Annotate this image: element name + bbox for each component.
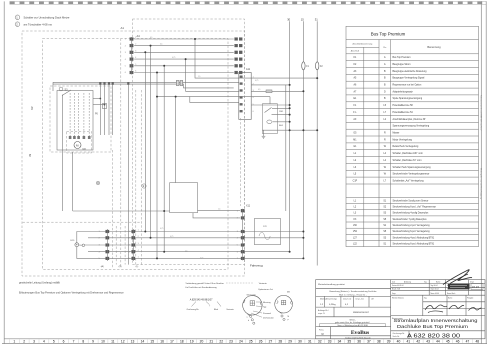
svg-text:A 629 540 49 88/1/07: A 629 540 49 88/1/07 bbox=[190, 298, 213, 301]
svg-text:4: 4 bbox=[43, 340, 45, 344]
unit pin row bbox=[69, 136, 91, 139]
svg-text:EvoBus GmbH D-89231 Neu-Ulm: EvoBus GmbH D-89231 Neu-Ulm bbox=[345, 337, 371, 339]
svg-text:3: 3 bbox=[253, 90, 254, 92]
wire relay top bbox=[269, 97, 271, 104]
junction dots bbox=[144, 38, 318, 259]
svg-text:0,75: 0,75 bbox=[200, 257, 203, 259]
svg-text:Schalter „Dachluke AUF“ vorn: Schalter „Dachluke AUF“ vorn bbox=[393, 152, 424, 155]
svg-text:Schalter zur Umschaltung Dach: Schalter zur Umschaltung Dach Metze bbox=[24, 15, 70, 19]
svg-text:Tag 04.04: Tag 04.04 bbox=[431, 285, 438, 287]
stub wires rows 2 4 bbox=[88, 237, 106, 239]
svg-text:Baugruppe elektrische Dosierun: Baugruppe elektrische Dosierung bbox=[393, 70, 428, 73]
svg-text:41: 41 bbox=[406, 340, 410, 344]
svg-text:13: 13 bbox=[131, 340, 135, 344]
bus 31 bbox=[316, 21, 318, 265]
wire drop to junction box bbox=[175, 97, 177, 183]
note 2 callout bbox=[15, 22, 20, 27]
wire relay bottom row bbox=[262, 130, 263, 133]
svg-text:Schalter Heck Spannungsversorg: Schalter Heck Spannungsversorgung bbox=[393, 166, 432, 169]
svg-text:1,5: 1,5 bbox=[218, 209, 220, 211]
callout 2 on harness bbox=[142, 184, 146, 188]
svg-text:(L): (L) bbox=[136, 266, 139, 268]
svg-text:30: 30 bbox=[298, 340, 302, 344]
svg-text:2: 2 bbox=[99, 238, 100, 240]
svg-text:42: 42 bbox=[416, 340, 420, 344]
svg-text:12V: 12V bbox=[263, 226, 267, 228]
bottom rows to buses bbox=[135, 232, 303, 259]
svg-text:39: 39 bbox=[387, 340, 391, 344]
wire branch drop row5 bbox=[163, 66, 165, 252]
svg-text:1: 1 bbox=[13, 340, 15, 344]
svg-text:Verw. u. Mitteilung ohne AG 92: Verw. u. Mitteilung ohne AG 92 BGB bbox=[337, 324, 368, 327]
svg-text:5: 5 bbox=[135, 64, 136, 66]
svg-text:24: 24 bbox=[239, 340, 243, 344]
svg-text:Relais Heck Verriegelung: Relais Heck Verriegelung bbox=[393, 145, 420, 148]
svg-text:Weitergabe nur mit Genehmigung: Weitergabe nur mit Genehmigung bbox=[479, 168, 482, 200]
note 1 callout bbox=[15, 15, 20, 20]
svg-text:(X): (X) bbox=[119, 266, 122, 268]
svg-text:Bus Top Premium: Bus Top Premium bbox=[371, 32, 406, 37]
svg-text:0,5: 0,5 bbox=[160, 43, 162, 45]
wire row 78 to bus31 bbox=[251, 84, 289, 86]
svg-text:7: 7 bbox=[73, 340, 75, 344]
svg-text:Gepr 04.04: Gepr 04.04 bbox=[431, 289, 439, 291]
svg-text:32: 32 bbox=[318, 340, 322, 344]
svg-text:Pin: Pin bbox=[383, 47, 386, 49]
svg-text:7: 7 bbox=[237, 258, 238, 260]
wire branch drop row2 bbox=[150, 46, 152, 238]
svg-text:Steckverbindung 6-pol. „Auf“ R: Steckverbindung 6-pol. „Auf“ Regensensor bbox=[393, 206, 437, 209]
svg-text:Name Beck: Name Beck bbox=[447, 293, 455, 295]
svg-text:21: 21 bbox=[209, 340, 213, 344]
svg-text:gestrichelte Leitung (Umfang): gestrichelte Leitung (Umfang) entfällt bbox=[19, 281, 60, 284]
wire branch drop row4 to strip bbox=[186, 59, 239, 91]
svg-text:47: 47 bbox=[466, 340, 470, 344]
svg-text:2: 2 bbox=[138, 236, 139, 238]
svg-text:Steckverbindung 2-pol. Verrieg: Steckverbindung 2-pol. Verriegelung bbox=[393, 224, 431, 227]
svg-text:Urspr: Urspr bbox=[470, 281, 474, 283]
svg-text:Bemerkung (Batterie) + Sondera: Bemerkung (Batterie) + Sonderausstattung… bbox=[330, 290, 378, 293]
svg-text:Drehstecker: Drehstecker bbox=[263, 316, 274, 319]
enclosure motor dashed box bbox=[67, 132, 92, 154]
svg-text:26: 26 bbox=[259, 340, 263, 344]
svg-text:36: 36 bbox=[357, 340, 361, 344]
svg-text:Anschlußbezeichnung: Anschlußbezeichnung bbox=[353, 43, 373, 46]
svg-text:Gepr.: Gepr. bbox=[392, 293, 396, 295]
svg-text:Tag: Tag bbox=[424, 281, 427, 283]
enclosure outer dashed box bbox=[22, 31, 245, 276]
switch S1 contact bbox=[62, 90, 71, 96]
svg-text:4: 4 bbox=[135, 57, 136, 59]
svg-text:0,5: 0,5 bbox=[150, 37, 152, 39]
bus 30 bbox=[289, 21, 291, 252]
svg-text:40: 40 bbox=[397, 340, 401, 344]
svg-text:16: 16 bbox=[160, 340, 164, 344]
svg-text:Regensensor nur bei Option: Regensensor nur bei Option bbox=[393, 84, 422, 87]
svg-text:31: 31 bbox=[308, 340, 312, 344]
svg-text:Zeichnungs-Nr.: Zeichnungs-Nr. bbox=[393, 333, 406, 335]
svg-text:Gewicht (kg): Gewicht (kg) bbox=[327, 298, 337, 301]
relay contact bbox=[265, 108, 272, 113]
svg-text:4: 4 bbox=[237, 238, 238, 240]
svg-text:18: 18 bbox=[180, 340, 184, 344]
wire unit left drop bbox=[62, 95, 64, 212]
svg-text:Verbindung gemäß Unterl. Bus-S: Verbindung gemäß Unterl. Bus-Struktur bbox=[186, 282, 225, 285]
svg-text:0,75: 0,75 bbox=[170, 236, 173, 238]
svg-text:Blatt: Blatt bbox=[214, 308, 218, 311]
svg-text:35: 35 bbox=[347, 340, 351, 344]
wire branch drop row3 bbox=[144, 52, 146, 231]
connector X1 pins bbox=[106, 230, 135, 260]
svg-text:1: 1 bbox=[253, 76, 254, 78]
wire A4 row4 bbox=[134, 58, 234, 60]
svg-text:urspr. N: urspr. N bbox=[318, 312, 325, 315]
bus 15 bbox=[302, 21, 304, 258]
pin pair on feed wires bbox=[176, 81, 179, 86]
svg-text:Tag: Tag bbox=[424, 298, 427, 300]
svg-text:5: 5 bbox=[129, 258, 130, 260]
svg-text:am Türschalter 4-08 ms: am Türschalter 4-08 ms bbox=[24, 22, 53, 26]
svg-text:Baugruppe Strom: Baugruppe Strom bbox=[393, 63, 411, 66]
svg-text:1,5: 1,5 bbox=[198, 76, 200, 78]
svg-text:29: 29 bbox=[288, 340, 292, 344]
svg-text:Adapterleitungssatz: Adapterleitungssatz bbox=[393, 90, 414, 93]
svg-text:6: 6 bbox=[125, 72, 126, 74]
svg-text:15: 15 bbox=[301, 17, 304, 21]
svg-text:X11: X11 bbox=[246, 205, 251, 208]
relay coil bbox=[267, 120, 272, 124]
svg-text:3: 3 bbox=[125, 52, 126, 54]
svg-text:Steckverbinder Verriegelungsse: Steckverbinder Verriegelungssensor bbox=[393, 173, 430, 176]
svg-text:Urspr.-mst: Urspr.-mst bbox=[356, 298, 365, 301]
svg-text:Messing: Messing bbox=[263, 302, 270, 304]
lamp E15 bbox=[75, 243, 79, 247]
svg-text:1: 1 bbox=[237, 210, 238, 212]
unit aux drops bbox=[100, 84, 112, 135]
svg-text:31: 31 bbox=[315, 17, 318, 21]
svg-text:3: 3 bbox=[237, 231, 238, 233]
wire A4 row6 bbox=[134, 72, 234, 74]
svg-text:Steckverbindung 4-pol. Abdecku: Steckverbindung 4-pol. Abdeckung BT81 bbox=[393, 236, 435, 239]
svg-text:30: 30 bbox=[287, 17, 290, 21]
svg-text:Zeichnung-Nr: Zeichnung-Nr bbox=[187, 309, 199, 311]
svg-text:für Dachluke mit Fernbedienung: für Dachluke mit Fernbedienung bbox=[186, 286, 218, 289]
wire sensor leads bbox=[79, 244, 82, 246]
svg-text:Anschlußdauerplus „Klemme 30“: Anschlußdauerplus „Klemme 30“ bbox=[393, 118, 427, 121]
control unit S1 box bbox=[57, 91, 93, 151]
svg-text:5: 5 bbox=[237, 245, 238, 247]
motor M3 bbox=[74, 142, 81, 149]
svg-text:Dachluke Bus Top Premium: Dachluke Bus Top Premium bbox=[397, 324, 468, 329]
fuse F1 bbox=[302, 62, 305, 70]
svg-text:2: 2 bbox=[135, 44, 136, 46]
svg-text:4: 4 bbox=[138, 250, 139, 252]
svg-text:Datum näl: Datum näl bbox=[343, 298, 352, 301]
svg-text:Variante: Variante bbox=[259, 282, 268, 285]
svg-text:6: 6 bbox=[135, 71, 136, 73]
wire A4 row2 bbox=[134, 45, 234, 47]
svg-text:A4: A4 bbox=[137, 34, 141, 38]
enclosure control unit dashed box bbox=[50, 86, 111, 152]
svg-text:EvoBus: EvoBus bbox=[351, 330, 370, 336]
svg-text:Norm 04.04: Norm 04.04 bbox=[431, 293, 439, 295]
svg-text:0,75: 0,75 bbox=[255, 80, 258, 82]
svg-text:4: 4 bbox=[125, 59, 126, 61]
wire size labels bbox=[150, 37, 260, 259]
svg-text:Potentialklemme 58: Potentialklemme 58 bbox=[393, 104, 414, 107]
svg-text:Bearb. Goll: Bearb. Goll bbox=[392, 289, 401, 291]
wire branch drop row6 bbox=[156, 73, 158, 259]
wire box to X11 row1 bbox=[198, 210, 241, 212]
svg-text:22: 22 bbox=[219, 340, 223, 344]
pin numbers X11 bbox=[237, 210, 238, 260]
enclosure middle dashed box bbox=[43, 39, 229, 270]
terminal symbol near trunk bbox=[96, 181, 99, 184]
sensor B bbox=[82, 244, 85, 247]
svg-text:Anschluß: Anschluß bbox=[351, 50, 360, 53]
svg-text:Motor Verriegelung: Motor Verriegelung bbox=[393, 138, 413, 141]
svg-text:37: 37 bbox=[367, 340, 371, 344]
svg-text:Bus Top Premium: Bus Top Premium bbox=[393, 56, 411, 59]
wire branch drop row1 bbox=[195, 39, 317, 78]
svg-text:Benennung: Benennung bbox=[427, 45, 441, 49]
svg-text:25: 25 bbox=[249, 340, 253, 344]
svg-text:Schalter „Dachluke ZU“ vorn: Schalter „Dachluke ZU“ vorn bbox=[393, 159, 423, 162]
svg-text:C1P: C1P bbox=[353, 181, 358, 183]
svg-text:48: 48 bbox=[475, 340, 479, 344]
wire feed pair extensions bbox=[186, 81, 239, 83]
svg-text:23: 23 bbox=[229, 340, 233, 344]
svg-text:Weiter-: Weiter- bbox=[349, 318, 355, 321]
svg-text:Spannungsversorgung Verriegelu: Spannungsversorgung Verriegelung bbox=[393, 125, 430, 128]
svg-text:Passend: Passend bbox=[263, 313, 271, 315]
svg-text:A1: A1 bbox=[121, 26, 125, 30]
svg-text:6: 6 bbox=[63, 340, 65, 344]
wire unit stub rows bbox=[93, 98, 100, 100]
enclosure A1 dashed box bbox=[133, 19, 245, 265]
svg-text:15: 15 bbox=[150, 340, 154, 344]
svg-text:19: 19 bbox=[190, 340, 194, 344]
svg-text:1: 1 bbox=[138, 230, 139, 232]
svg-text:Fahrzeug: Fahrzeug bbox=[250, 264, 263, 268]
pin numbers X1/X2 bbox=[99, 230, 139, 261]
wire box to X11 row2 bbox=[193, 213, 240, 218]
svg-text:5: 5 bbox=[253, 104, 254, 106]
svg-text:V52: V52 bbox=[353, 231, 358, 233]
svg-text:1: 1 bbox=[138, 257, 139, 259]
svg-text:1M: 1M bbox=[30, 154, 32, 157]
svg-text:Erläuterungen Bus Top Premium: Erläuterungen Bus Top Premium und Option… bbox=[19, 291, 124, 294]
svg-text:4: 4 bbox=[253, 97, 254, 99]
svg-text:1: 1 bbox=[129, 231, 130, 233]
wire relay 114 bbox=[272, 114, 290, 116]
svg-text:3: 3 bbox=[99, 245, 100, 247]
svg-text:11: 11 bbox=[111, 340, 115, 344]
buzzer box P5 bbox=[254, 219, 280, 245]
pin numbers A4 bbox=[125, 37, 136, 74]
svg-text:1: 1 bbox=[135, 37, 136, 39]
svg-text:(A): (A) bbox=[101, 265, 104, 268]
callout 1 on unit bbox=[59, 87, 63, 91]
svg-text:Schutzvermerk nach DIN 34 beac: Schutzvermerk nach DIN 34 beachten! bbox=[479, 95, 482, 131]
svg-text:14: 14 bbox=[141, 340, 145, 344]
svg-text:9: 9 bbox=[92, 340, 94, 344]
svg-text:3: 3 bbox=[138, 243, 139, 245]
svg-text:43: 43 bbox=[426, 340, 430, 344]
wire lamp loop top bbox=[77, 232, 106, 243]
svg-text:Steckverbindung 4-polig Dauerp: Steckverbindung 4-polig Dauerplus bbox=[393, 212, 430, 215]
wire relay 108 bbox=[272, 107, 290, 109]
svg-text:Stromlaufplan Innenverschaltun: Stromlaufplan Innenverschaltung bbox=[394, 318, 479, 323]
terminal strip A11 bbox=[239, 73, 251, 120]
svg-text:Variante: Variante bbox=[226, 308, 234, 311]
svg-text:Spule Spannungsversorgung: Spule Spannungsversorgung bbox=[393, 97, 423, 100]
svg-text:0,25kg: 0,25kg bbox=[329, 304, 336, 306]
wire relay coil out bbox=[273, 121, 290, 123]
svg-text:Blatt 1 v. Umfang – Ersatz für: Blatt 1 v. Umfang – Ersatz für – bbox=[339, 293, 368, 296]
svg-text:38: 38 bbox=[377, 340, 381, 344]
fuse F2 bbox=[316, 62, 319, 70]
svg-text:5: 5 bbox=[53, 340, 55, 344]
svg-text:2: 2 bbox=[23, 340, 25, 344]
svg-text:20: 20 bbox=[200, 340, 204, 344]
bus aux segment bbox=[285, 85, 287, 211]
svg-text:b: b bbox=[248, 320, 249, 322]
svg-text:45: 45 bbox=[446, 340, 450, 344]
svg-text:46: 46 bbox=[456, 340, 460, 344]
svg-text:0,75: 0,75 bbox=[172, 57, 175, 59]
svg-text:1: 1 bbox=[99, 231, 100, 233]
svg-text:Potentialklemme 54: Potentialklemme 54 bbox=[393, 111, 414, 114]
svg-text:0,75: 0,75 bbox=[160, 228, 163, 230]
svg-text:Freigabe: Freigabe bbox=[467, 298, 473, 300]
svg-text:34: 34 bbox=[338, 340, 342, 344]
wire lamp loop bottom bbox=[77, 247, 106, 259]
svg-text:10: 10 bbox=[101, 340, 105, 344]
svg-text:2: 2 bbox=[129, 238, 130, 240]
svg-text:2: 2 bbox=[253, 83, 254, 85]
svg-text:Optionieren 1st: Optionieren 1st bbox=[258, 288, 273, 291]
svg-text:Baugruppe Verriegelung Signal: Baugruppe Verriegelung Signal bbox=[393, 77, 425, 80]
svg-text:Sach-Nr.: Sach-Nr. bbox=[393, 336, 400, 338]
svg-text:A11: A11 bbox=[246, 68, 251, 71]
wire inter-channel drop bbox=[127, 84, 129, 265]
wire unit feed pair bbox=[53, 81, 186, 83]
svg-text:28: 28 bbox=[278, 340, 282, 344]
svg-text:27: 27 bbox=[269, 340, 273, 344]
svg-text:Name: Name bbox=[436, 281, 440, 283]
svg-text:Steckverbindung 6-pol. Abdecku: Steckverbindung 6-pol. Abdeckung BT81 bbox=[393, 242, 435, 245]
svg-text:Weiterbehandlung gestattet: Weiterbehandlung gestattet bbox=[318, 283, 345, 286]
svg-text:Auftrags-Nr /: Auftrags-Nr / bbox=[318, 309, 329, 312]
wire A4 row5 bbox=[134, 65, 234, 67]
svg-text:4: 4 bbox=[99, 251, 100, 253]
svg-text:6: 6 bbox=[237, 251, 238, 253]
wire unit to trunk bbox=[72, 152, 74, 211]
svg-text:Masse: Masse bbox=[393, 133, 400, 135]
splice component on aux drop bbox=[103, 104, 107, 109]
svg-text:2: 2 bbox=[237, 218, 238, 220]
ground bbox=[262, 134, 266, 139]
svg-text:4: 4 bbox=[129, 251, 130, 253]
wire row 91 to bus15 bbox=[251, 90, 303, 92]
svg-text:5: 5 bbox=[99, 258, 100, 260]
svg-text:44: 44 bbox=[436, 340, 440, 344]
wires between X1 X2 bbox=[109, 232, 132, 259]
svg-text:Firma: Firma bbox=[319, 330, 324, 332]
pin numbers A11 strip bbox=[253, 76, 254, 113]
svg-text:33: 33 bbox=[328, 340, 332, 344]
wire A4 row3 bbox=[134, 51, 234, 53]
wire lamp trunk row bbox=[73, 210, 170, 212]
svg-text:Steckverbindung 6-pol. Verrieg: Steckverbindung 6-pol. Verriegelung bbox=[393, 230, 431, 233]
wire row 105 to bus30 bbox=[251, 104, 289, 106]
svg-text:A 632 820 38 00: A 632 820 38 00 bbox=[407, 334, 460, 340]
wire A4 row1 bbox=[134, 38, 234, 40]
svg-text:3: 3 bbox=[33, 340, 35, 344]
svg-text:12: 12 bbox=[121, 340, 125, 344]
svg-text:5: 5 bbox=[125, 66, 126, 68]
strip pins bbox=[240, 76, 243, 113]
svg-text:Steckverbinder 5-polig vorn Se: Steckverbinder 5-polig vorn Sensor bbox=[393, 199, 429, 202]
svg-text:1,5: 1,5 bbox=[185, 250, 187, 252]
connector body lines bbox=[106, 229, 108, 261]
svg-text:2: 2 bbox=[125, 45, 126, 47]
svg-text:3: 3 bbox=[129, 245, 130, 247]
svg-text:1: 1 bbox=[125, 39, 126, 41]
svg-text:6: 6 bbox=[253, 111, 254, 113]
svg-text:Schaltrelais „Auf“ Verriegelun: Schaltrelais „Auf“ Verriegelung bbox=[393, 180, 425, 183]
relay K2 box bbox=[262, 104, 277, 134]
svg-text:04.04: 04.04 bbox=[472, 285, 479, 289]
wire jog row bbox=[157, 97, 239, 103]
harness channel dashed lines bbox=[23, 39, 142, 269]
svg-text:Steckverbinder 7-polig Dauerpl: Steckverbinder 7-polig Dauerplus bbox=[393, 218, 428, 221]
svg-text:0,5: 0,5 bbox=[258, 89, 260, 91]
svg-text:Name: Name bbox=[448, 298, 452, 300]
svg-text:17: 17 bbox=[170, 340, 174, 344]
junction box B2 bbox=[170, 183, 198, 213]
unit internal dashed wires bbox=[70, 93, 89, 136]
svg-text:3: 3 bbox=[135, 50, 136, 52]
svg-text:M: M bbox=[322, 333, 324, 336]
svg-text:WM450/2001/07: WM450/2001/07 bbox=[353, 312, 370, 314]
svg-text:8: 8 bbox=[82, 340, 84, 344]
